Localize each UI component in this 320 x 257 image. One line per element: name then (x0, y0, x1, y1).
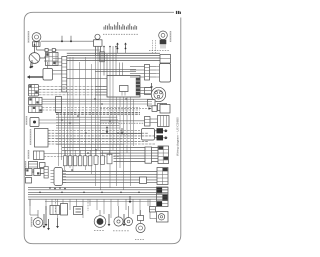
switch D label (28, 150, 30, 159)
junction dots row (49, 187, 51, 189)
dark wire pair (56, 111, 140, 113)
alternator (151, 87, 165, 101)
inline connector on bundle (100, 52, 105, 62)
arrow ground S (123, 214, 125, 224)
gauge ground dot (30, 62, 33, 67)
wire to ignition coils (100, 133, 142, 135)
multi-pin connector L (157, 168, 168, 185)
wire drops into battery box (103, 46, 105, 76)
rectifier box (148, 100, 156, 107)
ignition pickup (125, 218, 133, 226)
fuse box bottom (50, 206, 60, 215)
relay box left (46, 53, 59, 66)
wire bundle lower-right (60, 171, 157, 173)
wire bus bottom band (28, 186, 168, 188)
vertical bus right (95, 46, 97, 186)
wire row 118-124 (100, 120, 145, 122)
wires from connector B (42, 98, 152, 100)
arrow ground E (151, 83, 153, 87)
battery (74, 207, 83, 215)
dashed drops bottom (55, 199, 57, 213)
inline connector I (145, 117, 151, 127)
bulb label (135, 239, 136, 241)
arrow ground centre (121, 128, 123, 133)
small box G (152, 106, 157, 112)
arrow ground T (129, 196, 131, 201)
stator label (113, 230, 115, 232)
battery box (107, 76, 140, 98)
bottom aux box (61, 204, 68, 216)
left component E hatched (29, 162, 38, 173)
arrow terminal D (125, 44, 127, 49)
small connector boxes lower-left (26, 169, 33, 176)
wire left drop (29, 199, 31, 215)
tail lamp bottom label (31, 217, 33, 227)
multi-pin connector M dark (157, 187, 169, 207)
inline connector near CDI (44, 167, 48, 179)
arrow ground U (43, 214, 45, 226)
small box lower-left 2 (26, 178, 32, 184)
instrument gauge (29, 53, 40, 64)
regulator box (158, 104, 167, 111)
inline connector strip tall (62, 57, 67, 93)
tail lamp caption row (149, 50, 150, 52)
terminal A (61, 40, 63, 42)
arrow ground R (108, 214, 110, 224)
spark plug 1 (165, 130, 168, 133)
wire bundle mid-right (62, 147, 158, 149)
junction box right top (160, 55, 171, 64)
bottom verticals (29, 199, 31, 206)
socket stems (64, 150, 66, 156)
headlamp (32, 33, 41, 42)
band junction dots (39, 192, 41, 194)
arrow ground N (31, 60, 33, 66)
arrow ground P (45, 206, 47, 224)
starter relay box (158, 116, 170, 127)
border frame (24, 12, 181, 243)
instrument cluster box (35, 129, 49, 148)
connector block C (29, 106, 43, 113)
diode box (150, 207, 156, 213)
flasher relay (95, 34, 100, 39)
alternator stator (114, 217, 123, 226)
cluster label (30, 129, 32, 145)
starter motor label (94, 230, 96, 232)
tail lamp bottom-left (33, 218, 43, 228)
arrow terminal C (117, 44, 119, 49)
ignition coil unit (142, 129, 155, 141)
battery cell column (136, 78, 140, 96)
CDI unit (54, 168, 63, 186)
wire bus band 1 (95, 86, 107, 88)
wires from handlebar switch (39, 86, 108, 88)
ignition coil 1 (157, 128, 164, 133)
ignition lock label (26, 116, 28, 125)
wire bundle top (67, 52, 160, 54)
legend caption text (103, 33, 104, 35)
gauge stem (34, 44, 36, 53)
arrow stem drops (117, 49, 119, 53)
left handlebar switch connector (29, 85, 39, 97)
starter motor (94, 216, 106, 228)
inline connector tall (56, 97, 62, 113)
horn (157, 212, 169, 223)
wires M to horn (149, 199, 151, 212)
junction dots (61, 119, 63, 121)
wires left of strip (53, 58, 62, 60)
aux box pair (40, 163, 46, 168)
connector block B (29, 98, 43, 105)
ignition lock switch (30, 118, 39, 127)
socket row centre (64, 156, 67, 166)
multi-pin connector J (158, 146, 169, 164)
inline connector vertical (145, 65, 150, 81)
wires from cluster (48, 130, 140, 132)
rear lamp bottom (136, 223, 145, 232)
arrow ground Q (57, 218, 59, 226)
battery box inner verticals (109, 76, 111, 97)
inline connector K (140, 177, 147, 184)
arrow ground centre 2 (106, 127, 108, 129)
page number (176, 11, 177, 14)
switch box D (34, 151, 45, 160)
vertical bus left (69, 57, 71, 168)
starter relay (120, 86, 129, 92)
thick ground lead (30, 76, 43, 78)
spark plug 2 (165, 137, 168, 140)
wire row 106-112 with arrow (100, 108, 151, 110)
headlamp label (28, 31, 30, 43)
inline connector pair on lower wire (45, 49, 48, 52)
ignition switch (160, 64, 171, 83)
tail lamp (159, 31, 168, 40)
wire bus band 2 (56, 116, 117, 118)
wires into ignition switch (130, 66, 145, 68)
arrow ground V (48, 219, 50, 228)
wire headlamp to bus (41, 40, 97, 42)
inline connector strip (145, 147, 152, 163)
ignition coil 2 (157, 135, 164, 140)
ignition switch left (43, 69, 53, 81)
svg-text:Wiring diagram – US CB650: Wiring diagram – US CB650 (176, 117, 180, 156)
wire tail lamp drops (152, 40, 154, 53)
terminal B (70, 40, 72, 42)
wires battery to alternator (140, 87, 152, 89)
wires ignition to strip (53, 70, 62, 72)
box H with label (160, 105, 170, 114)
component E label (25, 161, 27, 171)
wire pair into battery box (67, 68, 137, 70)
wire strip to battery box (67, 77, 107, 79)
tail lamp label (170, 31, 172, 42)
small box F (145, 88, 152, 95)
wire colour legend comb (103, 27, 105, 30)
